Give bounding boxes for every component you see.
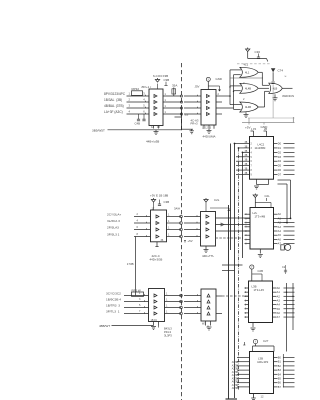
svg-text:A1/3B: A1/3B xyxy=(232,364,239,367)
svg-text:+5V: +5V xyxy=(188,239,193,243)
svg-text:J5V: J5V xyxy=(195,85,200,89)
svg-text:3A/H: 3A/H xyxy=(174,207,180,211)
svg-text:C2: C2 xyxy=(282,265,286,269)
svg-text:C4B: C4B xyxy=(135,122,141,126)
svg-text:8PV/3123/4PC: 8PV/3123/4PC xyxy=(104,92,126,96)
svg-text:35A: 35A xyxy=(172,84,177,88)
svg-text:1B/9C3B 4: 1B/9C3B 4 xyxy=(106,297,121,301)
svg-text:≈: ≈ xyxy=(285,75,287,79)
svg-text:3B: 3B xyxy=(245,146,248,148)
svg-text:4L1: 4L1 xyxy=(244,63,249,67)
svg-text:44D+TTL: 44D+TTL xyxy=(202,254,215,258)
svg-text:4L1: 4L1 xyxy=(245,70,250,74)
svg-text:A7/3B: A7/3B xyxy=(232,384,239,387)
svg-text:3L3P3: 3L3P3 xyxy=(164,334,172,338)
svg-text:C2B: C2B xyxy=(258,269,264,273)
svg-text:2CY/3LA+: 2CY/3LA+ xyxy=(107,212,121,216)
svg-text:GND: GND xyxy=(216,77,222,81)
svg-text:3P/3L3 1: 3P/3L3 1 xyxy=(107,232,120,236)
svg-text:1T3-L45: 1T3-L45 xyxy=(254,288,265,292)
svg-text:C2L: C2L xyxy=(214,198,220,202)
svg-text:3B: 3B xyxy=(245,151,248,153)
svg-text:C2L: C2L xyxy=(265,194,271,198)
svg-text:44D+3P2: 44D+3P2 xyxy=(257,360,269,364)
svg-text:B43L3: B43L3 xyxy=(164,326,172,330)
svg-text:3B: 3B xyxy=(245,168,248,170)
svg-text:3B: 3B xyxy=(245,142,248,144)
svg-text:C27: C27 xyxy=(263,339,269,343)
svg-text:3B: 3B xyxy=(245,160,248,162)
svg-text:4L4B: 4L4B xyxy=(245,105,251,109)
svg-text:3B: 3B xyxy=(245,164,248,166)
svg-text:11 12 13: 11 12 13 xyxy=(202,126,212,129)
svg-text:P4/L3: P4/L3 xyxy=(164,330,172,334)
svg-text:RP32: RP32 xyxy=(132,87,140,91)
svg-text:4WD/3CN: 4WD/3CN xyxy=(282,94,294,98)
svg-text:C74: C74 xyxy=(278,69,284,73)
svg-text:44B+/u3B: 44B+/u3B xyxy=(146,140,159,144)
svg-text:1113/BM: 1113/BM xyxy=(255,146,266,150)
svg-text:4B/BAL (3TB): 4B/BAL (3TB) xyxy=(104,104,124,108)
svg-text:A4/3B: A4/3B xyxy=(232,374,239,377)
svg-text:W3: W3 xyxy=(202,323,206,326)
svg-text:A6/3B: A6/3B xyxy=(232,381,239,384)
svg-text:3B: 3B xyxy=(245,155,248,157)
svg-text:J5V+1 r: J5V+1 r xyxy=(141,85,151,89)
svg-text:A5/3B: A5/3B xyxy=(232,377,239,380)
svg-text:1B/TR3 3: 1B/TR3 3 xyxy=(106,303,120,307)
svg-text:3B: 3B xyxy=(245,173,248,175)
svg-text:A8/3B: A8/3B xyxy=(232,387,239,390)
svg-text:A0/3B: A0/3B xyxy=(232,361,239,364)
svg-text:C30: C30 xyxy=(255,50,261,54)
svg-text:44D+3GB: 44D+3GB xyxy=(150,258,163,262)
svg-text:3P/TL3 1: 3P/TL3 1 xyxy=(106,309,120,313)
svg-text:Y: Y xyxy=(207,78,209,82)
svg-text:1B 19: 1B 19 xyxy=(151,319,158,322)
svg-text:173B: 173B xyxy=(127,262,134,266)
svg-text:C3B: C3B xyxy=(164,200,170,204)
svg-text:1T3+/4B: 1T3+/4B xyxy=(255,214,266,218)
svg-text:3CYC/3C2: 3CYC/3C2 xyxy=(106,291,121,295)
svg-text:2P/3LA3: 2P/3LA3 xyxy=(107,225,119,229)
svg-text:12: 12 xyxy=(261,395,264,399)
svg-text:+3V E 1B 18B: +3V E 1B 18B xyxy=(150,193,168,197)
svg-text:3B5/W5T: 3B5/W5T xyxy=(92,128,105,132)
svg-text:A2/3B: A2/3B xyxy=(232,368,239,371)
svg-text:PR+3: PR+3 xyxy=(191,122,199,126)
svg-text:≈≈: ≈≈ xyxy=(185,113,189,117)
svg-text:L3B: L3B xyxy=(258,356,263,360)
svg-text:4L4B: 4L4B xyxy=(245,86,251,90)
svg-text:1 P4: 1 P4 xyxy=(251,128,257,131)
svg-text:3L/3CA 3: 3L/3CA 3 xyxy=(107,219,120,223)
svg-text:44D/UMA: 44D/UMA xyxy=(203,134,216,138)
svg-text:LA+3F (A3C): LA+3F (A3C) xyxy=(104,110,123,114)
svg-text:A3/3B: A3/3B xyxy=(232,371,239,374)
svg-text:4BB/WT: 4BB/WT xyxy=(99,324,110,328)
svg-text:2B: 2B xyxy=(264,128,267,131)
svg-text:1B/3AL (3B): 1B/3AL (3B) xyxy=(104,98,122,102)
svg-text:C9B: C9B xyxy=(164,78,170,82)
